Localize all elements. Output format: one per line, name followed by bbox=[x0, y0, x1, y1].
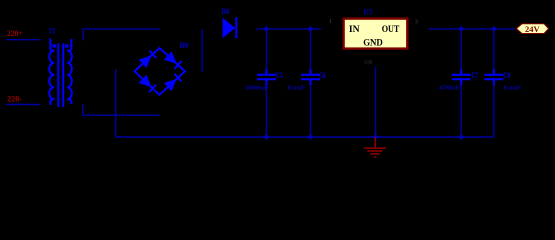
svg-text:220+: 220+ bbox=[7, 29, 23, 38]
primary winding arcs bbox=[49, 51, 54, 100]
svg-text:T1: T1 bbox=[48, 27, 55, 36]
wire C8 top lead bbox=[493, 29, 495, 74]
junction C6 top bbox=[308, 26, 314, 32]
wire C8 bottom lead bbox=[493, 80, 495, 138]
transformer T1 bbox=[49, 38, 72, 107]
secondary bottom lead bbox=[67, 99, 71, 104]
junction C6 bottom bbox=[308, 134, 314, 140]
wire C6 top lead bbox=[310, 29, 312, 74]
svg-text:C8: C8 bbox=[503, 71, 510, 80]
transformer polarity dot primary bbox=[52, 44, 56, 47]
transformer polarity dot secondary bbox=[65, 44, 69, 47]
secondary winding arcs bbox=[67, 51, 72, 100]
svg-text:3: 3 bbox=[415, 20, 418, 26]
wire C7 top lead bbox=[460, 29, 462, 74]
capacitor C7 bbox=[452, 69, 471, 85]
wire C7 bottom lead bbox=[460, 80, 462, 138]
wire D8 cathode to regulator IN bbox=[256, 28, 321, 30]
svg-text:GND: GND bbox=[364, 60, 373, 66]
wire 220+ to transformer primary top bbox=[6, 39, 40, 41]
svg-text:D8: D8 bbox=[221, 7, 229, 16]
svg-text:IN: IN bbox=[349, 24, 360, 34]
bridge diode lower-right bbox=[164, 79, 177, 92]
bridge diode upper-right bbox=[164, 51, 177, 64]
svg-text:0.1uF: 0.1uF bbox=[504, 85, 522, 92]
svg-text:470uF: 470uF bbox=[439, 85, 460, 92]
svg-text:0.1uF: 0.1uF bbox=[288, 85, 306, 92]
wire regulator GND to ground rail bbox=[375, 67, 377, 137]
wire bridge plus to diode D8 anode bbox=[201, 30, 203, 72]
junction C5 bottom bbox=[263, 134, 269, 140]
wire C5 bottom lead bbox=[265, 80, 267, 138]
svg-text:GND: GND bbox=[363, 37, 383, 47]
capacitor C5 bbox=[257, 69, 276, 85]
wire 220- to transformer primary bottom bbox=[6, 104, 40, 106]
wire C5 top lead bbox=[265, 29, 267, 74]
wire bridge minus branch to ground rail bbox=[115, 69, 117, 137]
junction C8 top bbox=[491, 26, 497, 32]
junction C7 top bbox=[458, 26, 464, 32]
junction C7 bottom bbox=[458, 134, 464, 140]
wire C6 bottom lead bbox=[310, 80, 312, 138]
svg-text:1000uF: 1000uF bbox=[245, 85, 269, 92]
svg-text:OUT: OUT bbox=[382, 24, 400, 34]
svg-text:24V: 24V bbox=[525, 25, 540, 34]
core line left bbox=[57, 43, 59, 107]
svg-text:U5: U5 bbox=[363, 8, 372, 17]
primary bottom lead bbox=[50, 99, 54, 105]
wire secondary top to bridge top bbox=[83, 29, 159, 40]
wire ground rail bbox=[116, 136, 494, 138]
svg-text:D9: D9 bbox=[179, 40, 188, 50]
bridge diamond outline bbox=[135, 48, 186, 95]
wire regulator OUT to output bbox=[429, 28, 515, 30]
bridge rectifier D9 bbox=[135, 48, 186, 95]
svg-text:220-: 220- bbox=[7, 94, 22, 103]
diode D8 bbox=[223, 17, 237, 38]
port 24V flag bbox=[516, 24, 548, 34]
regulator U5 body bbox=[344, 19, 408, 49]
bridge diode upper-left bbox=[139, 56, 152, 69]
primary top lead bbox=[50, 38, 54, 50]
secondary top lead bbox=[67, 39, 71, 51]
capacitor C6 bbox=[301, 69, 320, 85]
svg-text:C5: C5 bbox=[276, 71, 283, 80]
wire secondary bottom to bridge bottom bbox=[83, 104, 160, 115]
svg-text:C7: C7 bbox=[471, 71, 478, 80]
junction ground bbox=[373, 134, 379, 140]
core line right bbox=[62, 43, 64, 107]
ground symbol bbox=[364, 138, 386, 158]
svg-text:C6: C6 bbox=[319, 71, 326, 80]
svg-text:1: 1 bbox=[329, 19, 332, 25]
bridge diode lower-left bbox=[139, 75, 152, 88]
junction C5 top bbox=[263, 26, 269, 32]
capacitor C8 bbox=[484, 69, 503, 85]
